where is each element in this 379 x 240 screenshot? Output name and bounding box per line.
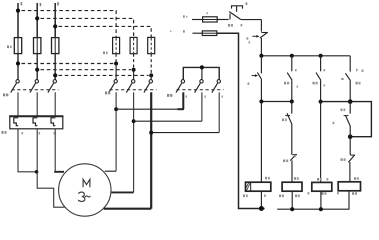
coil KT [246, 182, 271, 191]
motor M circle [59, 164, 111, 216]
label KM3 coil [317, 178, 319, 181]
wire FU4 to bottom bus [217, 33, 265, 208]
junction dot KM2 pole2 top [132, 68, 136, 72]
coil KM1 [282, 182, 302, 191]
bottom bus segment B [277, 191, 349, 209]
wire U2 motor right to KM2 pole2 [112, 191, 134, 193]
label L1 [21, 2, 23, 5]
junction blob bottom left [259, 206, 264, 211]
fuse FU1-3 [52, 38, 59, 54]
contact KT NC branch4 [344, 102, 351, 137]
junction dot KM2 pole3 top [149, 73, 153, 77]
wire dashed FU2-1 down [115, 54, 117, 64]
wire tap to KM3 pole3 [151, 132, 219, 134]
contactor KM3 pole 2 [195, 80, 204, 122]
wire KM2 pole3 down bold [150, 92, 152, 208]
fuse FU1-1 [14, 38, 21, 54]
junction dot U1 [35, 170, 39, 174]
label tap2 [183, 30, 185, 32]
heater element 1 [14, 118, 18, 126]
junction dot below FU1-3 [53, 73, 57, 77]
contactor KM1 pole 1 [11, 80, 20, 117]
control wire from L1 tap [192, 19, 203, 21]
contact KM aux branch2 upper [287, 56, 292, 102]
bus node A [261, 55, 350, 57]
label FU1 [7, 46, 9, 49]
wire tap to KM3 pole2 [134, 120, 202, 122]
contactor KM1 pole 3 [48, 80, 57, 117]
wire through fuses FU1 [17, 38, 19, 53]
contactor KM2 pole 1 [109, 64, 118, 93]
bus node B left [261, 101, 291, 103]
wire KM2 pole2 down [133, 92, 135, 192]
label branch2 upper [284, 82, 286, 85]
contact branch4 upper [341, 56, 350, 102]
contactor KM2 pole 3 [144, 75, 153, 92]
wire coil KM3 bottom [320, 191, 322, 209]
label KM3 [167, 94, 169, 97]
wire U1 from FR to motor [18, 129, 37, 172]
label pins KM3 [186, 96, 188, 98]
label FU2 [103, 52, 105, 55]
stop button SB1 [229, 6, 261, 20]
wire tap to KM3 pole1 [116, 108, 183, 110]
thermal overload relay FR box [10, 116, 63, 129]
label branch2 lower [283, 160, 285, 163]
label terminals under box [22, 132, 24, 134]
wire W1 from FR to motor bold [54, 129, 56, 172]
wire dashed L1 to fuse FU2-1 [22, 11, 117, 38]
wire KM2 pole1 down to motor elbow [115, 92, 117, 171]
node L1 supply column [17, 3, 19, 38]
node L2 supply column [36, 3, 38, 38]
wire V1 from FR to motor [37, 129, 64, 207]
bus node C right with bypass elbow [321, 102, 372, 137]
mech linkage KM3 dashed [177, 89, 224, 91]
junction dot L1 [16, 9, 20, 13]
junction dot KM2 pole1 top [114, 62, 118, 66]
contact KM3 aux NO branch2 lower [290, 154, 297, 182]
junction dot star point [200, 65, 204, 69]
mech linkage KM1 dashed [12, 89, 59, 91]
label M [83, 179, 90, 187]
contact KT NC branch2 [285, 102, 292, 155]
wire W2 motor right to KM2 pole1 [105, 170, 116, 172]
label branch4 lower [341, 158, 343, 161]
wire dashed row to KM2 pole1 [22, 63, 114, 65]
label branch3 upper [313, 82, 315, 85]
fuse FU3 [203, 17, 218, 22]
junction dot L2 [35, 16, 39, 20]
junction dot L3 [53, 24, 57, 28]
junction dot pole1 tap [114, 107, 118, 111]
star bus KM3 [183, 67, 219, 79]
label L3 [57, 2, 59, 5]
contactor KM3 pole 1 [176, 80, 185, 110]
junction dot pole3 tap [149, 131, 153, 135]
junction dot below FU1-2 [35, 68, 39, 72]
label KM1 coil [294, 177, 296, 180]
wire L1 fuse to dot [17, 54, 19, 80]
wire dashed L2 to fuse FU2-2 [41, 18, 134, 37]
junction dot below FU1-1 [16, 61, 20, 65]
label KM2 [105, 92, 107, 95]
junction dot pole2 tap [132, 119, 136, 123]
heater element 3 [51, 118, 55, 126]
label 3~ [78, 192, 85, 201]
wire dashed FU2-2 down [133, 54, 135, 70]
wire branch3 to coil [320, 102, 322, 183]
node L3 supply column [54, 3, 56, 38]
heater element 2 [33, 118, 37, 126]
contact KM aux branch3 upper [316, 56, 321, 102]
misc speck [170, 31, 171, 33]
label KT NC branch4 [341, 109, 343, 112]
wire coil KM1 bottom [291, 191, 293, 209]
wire dashed row to KM2 pole3 [59, 74, 149, 76]
mech linkage KM2 dashed [110, 89, 157, 91]
wire L3 fuse to dot [54, 54, 56, 80]
start button SB2 [252, 20, 267, 56]
wire dashed FU2-3 down [150, 54, 152, 76]
label KM1 [3, 94, 5, 97]
label branch3 mid [333, 122, 335, 124]
label FR [2, 131, 4, 134]
fuse FU2-2 [130, 37, 137, 53]
wire coil KT bottom [260, 191, 262, 208]
label L2 [40, 3, 42, 6]
contactor KM1 pole 2 [30, 80, 39, 117]
wire V2 motor right to KM2 pole3 bold [104, 208, 151, 210]
coil KM3 [312, 182, 332, 191]
label KT NC branch2 [282, 119, 284, 122]
control wire from L2 tap [193, 32, 203, 34]
coil KM2 [338, 182, 360, 191]
label SB2 [247, 37, 249, 39]
label KM2 coil [354, 177, 356, 180]
fuse FU1-2 [34, 38, 41, 54]
wire dashed row to KM2 pole2 [41, 69, 132, 71]
wire branch1 to coil KT [260, 102, 262, 183]
button SB3 [252, 56, 262, 102]
label branch4 upper [356, 69, 358, 71]
fuse FU4 [202, 31, 217, 36]
contactor KM2 pole 2 [126, 70, 135, 93]
label tap1 [183, 15, 185, 17]
wire dashed L3 to fuse FU2-3 [59, 26, 152, 37]
contactor KM3 pole 3 [212, 80, 221, 133]
label KT coil [265, 177, 267, 180]
fuse FU2-1 [113, 37, 120, 53]
wire L2 fuse to dot [36, 54, 38, 80]
contact branch4 lower NO [348, 137, 355, 182]
label SB3 [248, 83, 250, 85]
fuse FU2-3 [148, 37, 155, 53]
label SB1 [228, 24, 230, 27]
